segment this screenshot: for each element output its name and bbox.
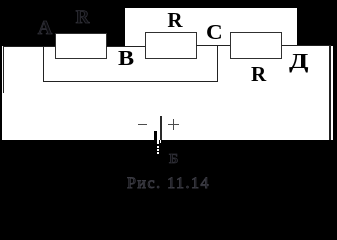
resistor R2: [145, 32, 197, 60]
caption Fig 11.14: [127, 176, 210, 192]
wire bypass left riser: [43, 46, 44, 82]
battery B1: [130, 110, 210, 160]
label R2 value R: [167, 10, 182, 31]
label battery B: [169, 153, 178, 167]
label R3 value R: [251, 64, 266, 85]
resistor R1: [55, 33, 107, 59]
node B: [118, 48, 134, 69]
node C: [206, 22, 223, 43]
wire left side: [3, 46, 5, 94]
wire R1 to R2: [106, 46, 146, 47]
node D: [289, 51, 309, 72]
wire R3 to right corner: [282, 45, 331, 46]
wire bypass bottom horizontal: [43, 81, 218, 82]
wire R2 to R3 through node C: [196, 45, 231, 46]
label R1 value R: [76, 8, 90, 27]
node A: [38, 18, 52, 38]
wire right side: [329, 45, 331, 140]
resistor R3: [230, 32, 282, 59]
wire top-left (node A to left corner): [3, 46, 56, 47]
wire junction C vertical drop: [217, 46, 218, 83]
